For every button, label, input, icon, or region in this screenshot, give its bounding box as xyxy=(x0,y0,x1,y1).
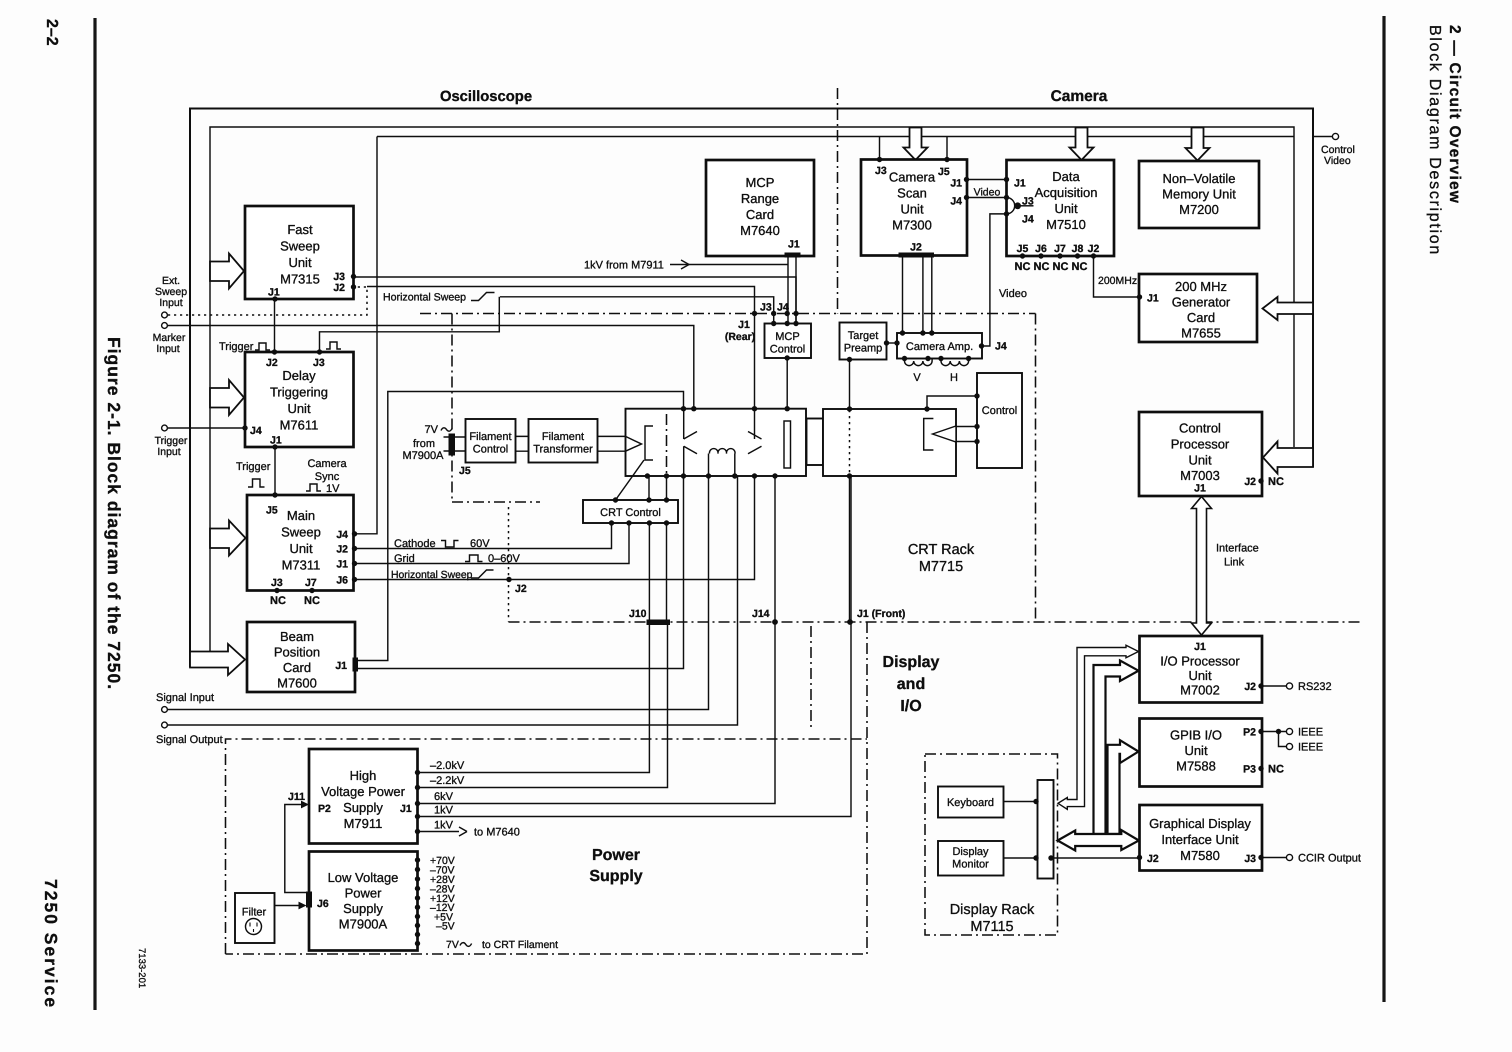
arrow into control processor unit xyxy=(1263,442,1313,474)
svg-text:Card: Card xyxy=(283,660,311,675)
label HV outputs xyxy=(430,760,465,832)
svg-text:Horizontal Sweep: Horizontal Sweep xyxy=(391,570,473,581)
svg-text:IEEE: IEEE xyxy=(1298,727,1323,739)
junction dots fast sweep xyxy=(272,274,356,302)
wire J11 to HV P2 xyxy=(285,801,309,893)
label J10 xyxy=(629,608,647,620)
svg-text:1kV from M7911: 1kV from M7911 xyxy=(584,260,664,272)
svg-text:Link: Link xyxy=(1224,557,1245,569)
svg-text:P2: P2 xyxy=(1243,727,1256,739)
arrow into 200MHz generator card xyxy=(1263,297,1314,320)
svg-text:to CRT Filament: to CRT Filament xyxy=(482,939,558,951)
svg-text:Power: Power xyxy=(592,847,640,864)
CRT mcp plate xyxy=(784,421,791,468)
page rule right xyxy=(1382,16,1385,1002)
wire MCP control to CRT mcp plate xyxy=(786,358,788,421)
outer frame top bus xyxy=(190,109,1313,668)
unit M7003 control processor xyxy=(1139,412,1262,496)
svg-text:Unit: Unit xyxy=(1188,668,1212,683)
keyboard box xyxy=(938,787,1004,818)
arrow into camera scan unit xyxy=(904,128,928,161)
footer 7250 Service rotated xyxy=(41,879,61,1009)
figure caption rotated xyxy=(104,337,124,690)
svg-text:0–60V: 0–60V xyxy=(488,553,520,565)
svg-text:Unit: Unit xyxy=(1054,201,1078,216)
svg-text:J1: J1 xyxy=(335,660,347,672)
CRT envelope xyxy=(626,409,807,476)
label J14 xyxy=(752,608,770,620)
label video camera scan xyxy=(974,187,1001,199)
svg-text:to M7640: to M7640 xyxy=(474,827,520,839)
connector bar camera scan J2 xyxy=(899,253,935,258)
junction dots CRT bottom xyxy=(645,473,778,478)
camera tube envelope xyxy=(823,409,956,476)
arrow into non-volatile memory unit xyxy=(1186,128,1210,161)
svg-text:7250 Service: 7250 Service xyxy=(41,879,61,1009)
svg-text:Position: Position xyxy=(274,645,320,660)
terminal CCIR Output xyxy=(1286,853,1361,865)
svg-text:Sync: Sync xyxy=(315,471,340,483)
label J4 camera amp xyxy=(995,341,1007,353)
svg-text:Input: Input xyxy=(159,297,182,309)
connector bar J5 7V xyxy=(449,434,456,456)
svg-text:Horizontal Sweep: Horizontal Sweep xyxy=(383,292,466,304)
label J2 rack xyxy=(515,583,527,595)
terminal trigger input xyxy=(155,425,188,458)
svg-text:Control: Control xyxy=(473,444,508,456)
svg-text:(Rear): (Rear) xyxy=(725,331,755,343)
svg-text:NC: NC xyxy=(1268,764,1284,776)
label trigger at fast J1 xyxy=(219,341,270,353)
svg-text:M7715: M7715 xyxy=(919,559,963,575)
svg-text:M7510: M7510 xyxy=(1046,217,1086,232)
svg-text:J10: J10 xyxy=(629,608,647,620)
wire beam position J1 lower route to CRT bottom xyxy=(357,476,684,669)
svg-text:M7900A: M7900A xyxy=(403,450,445,462)
svg-text:Generator: Generator xyxy=(1172,295,1231,310)
svg-text:Unit: Unit xyxy=(288,255,312,270)
svg-text:Filament: Filament xyxy=(469,431,511,443)
wire horizontal sweep from delay J3 to MCP control J3 xyxy=(320,297,774,352)
header Block Diagram Description rotated xyxy=(1426,25,1443,256)
svg-text:Cathode: Cathode xyxy=(394,538,436,550)
svg-text:Grid: Grid xyxy=(394,553,415,565)
svg-text:J3: J3 xyxy=(760,302,772,314)
wire target preamp to J1 front xyxy=(849,360,851,623)
label trigger at delay J1 xyxy=(236,461,271,487)
bus keyboard to IOP thin arrow xyxy=(1058,645,1139,809)
svg-text:Trigger: Trigger xyxy=(219,341,254,353)
svg-text:Fast: Fast xyxy=(287,222,313,237)
svg-text:Camera Amp.: Camera Amp. xyxy=(906,341,973,353)
camera tube target mesh dotted xyxy=(849,410,851,475)
label NC control processor J2 xyxy=(1268,476,1284,488)
svg-text:Video: Video xyxy=(974,187,1001,199)
svg-text:Voltage Power: Voltage Power xyxy=(321,784,406,799)
svg-text:J6: J6 xyxy=(1035,243,1047,255)
svg-text:Block Diagram Description: Block Diagram Description xyxy=(1426,25,1443,256)
svg-text:Beam: Beam xyxy=(280,629,314,644)
terminal signal output xyxy=(156,722,223,746)
svg-text:J11: J11 xyxy=(288,791,305,803)
svg-text:J2: J2 xyxy=(910,242,922,254)
wire CRT control outputs to J10 xyxy=(649,523,666,620)
svg-text:J1: J1 xyxy=(1014,178,1026,190)
CRT deflection plates vertical xyxy=(684,409,697,476)
label CRT rack xyxy=(908,542,975,575)
svg-text:1kV: 1kV xyxy=(434,820,454,832)
svg-text:M7588: M7588 xyxy=(1176,759,1216,774)
terminal RS232 xyxy=(1286,681,1331,693)
junction dots rack line J1 rear J3 J4 xyxy=(752,311,799,316)
wire 7V stubs at J5 xyxy=(444,437,466,451)
svg-text:J6: J6 xyxy=(336,575,348,587)
svg-text:J1: J1 xyxy=(336,559,348,571)
label interface link xyxy=(1216,543,1259,569)
junction dot CPU J2 xyxy=(1258,478,1263,483)
junction dots CRT top xyxy=(681,406,790,411)
MCP control box xyxy=(765,324,812,359)
svg-text:NC: NC xyxy=(1015,261,1031,273)
svg-text:Sweep: Sweep xyxy=(280,239,320,254)
title Camera xyxy=(1051,88,1108,105)
svg-text:Unit: Unit xyxy=(287,401,311,416)
unit M7580 graphical display interface xyxy=(1140,805,1263,871)
wire control box to tube top xyxy=(927,396,977,409)
svg-text:–2.2kV: –2.2kV xyxy=(430,775,465,787)
label NC GPIB P3 xyxy=(1268,764,1284,776)
terminal Control Video xyxy=(1321,133,1355,167)
svg-text:NC: NC xyxy=(1053,261,1069,273)
junction dots camera scan top xyxy=(877,157,950,162)
wire ext sweep to CRT J1 rear xyxy=(367,287,755,409)
bus channel into IOP bold arrow xyxy=(1094,661,1139,835)
label cathode xyxy=(394,538,490,550)
svg-text:J2: J2 xyxy=(515,583,527,595)
label display and IO xyxy=(883,654,940,715)
svg-text:Graphical Display: Graphical Display xyxy=(1149,816,1251,831)
wire video down to camera amp J4 xyxy=(982,214,1007,346)
svg-text:J4: J4 xyxy=(250,425,262,437)
wire 1kV from M7911 to MCP range J1 xyxy=(584,260,788,272)
label video line xyxy=(999,288,1027,300)
svg-text:I/O Processor: I/O Processor xyxy=(1160,654,1240,669)
CRT yoke coil xyxy=(709,449,736,476)
junction dots HV outputs xyxy=(415,770,420,834)
svg-text:MCP: MCP xyxy=(775,331,799,343)
unit M7655 200MHz generator card xyxy=(1139,274,1257,342)
wire J10 to HV -2.2kV xyxy=(418,624,668,788)
junction dot J2 rack crossing xyxy=(506,577,511,582)
unit M7315 fast sweep xyxy=(245,206,354,299)
wire transformer to CRT gun xyxy=(598,436,626,451)
wire camera scan J2 to camera amp xyxy=(903,257,932,333)
svg-text:J4: J4 xyxy=(995,341,1007,353)
control box xyxy=(977,373,1022,468)
label 7V from M7900A xyxy=(403,424,452,462)
svg-text:7V: 7V xyxy=(425,424,439,436)
display rack connector bar xyxy=(1038,780,1054,879)
svg-text:M7600: M7600 xyxy=(277,676,317,691)
svg-text:J2: J2 xyxy=(266,357,278,369)
svg-text:J3: J3 xyxy=(313,357,325,369)
svg-text:M7911: M7911 xyxy=(344,816,383,831)
svg-text:P2: P2 xyxy=(318,803,331,815)
wire keyboard to connector bar xyxy=(1004,801,1038,803)
svg-text:J7: J7 xyxy=(305,577,317,589)
pulse symbol at delay J3 xyxy=(326,342,341,349)
svg-text:M7611: M7611 xyxy=(280,418,319,433)
svg-text:J1: J1 xyxy=(738,319,750,331)
svg-text:Display Rack: Display Rack xyxy=(950,902,1035,918)
terminal IEEE 2 xyxy=(1286,742,1323,754)
wire filament control to transformer xyxy=(516,436,529,451)
svg-text:J5: J5 xyxy=(459,465,471,477)
svg-text:from: from xyxy=(413,438,435,450)
svg-text:P3: P3 xyxy=(1243,764,1256,776)
svg-text:Signal Output: Signal Output xyxy=(156,734,223,746)
label J1 rear xyxy=(725,319,755,343)
svg-text:Delay: Delay xyxy=(282,368,316,383)
svg-text:M7580: M7580 xyxy=(1180,848,1220,863)
svg-text:and: and xyxy=(897,676,925,693)
svg-text:Unit: Unit xyxy=(900,202,924,217)
junction dots delay triggering xyxy=(242,349,322,449)
svg-text:Signal Input: Signal Input xyxy=(156,692,214,704)
svg-text:Card: Card xyxy=(746,207,774,222)
wire DAU J2 to 200MHz J1 xyxy=(1094,256,1140,297)
label J5 rack xyxy=(459,465,471,477)
filament control box xyxy=(466,419,516,463)
svg-text:1kV: 1kV xyxy=(434,805,454,817)
svg-text:I/O: I/O xyxy=(900,698,921,715)
svg-text:Processor: Processor xyxy=(1171,437,1230,452)
filter box xyxy=(235,893,275,943)
dash-dot main rack line J1 front xyxy=(509,621,1361,623)
terminal signal input xyxy=(156,692,214,712)
unit M7640 MCP range card xyxy=(706,160,814,256)
svg-text:Interface Unit: Interface Unit xyxy=(1161,832,1239,847)
svg-text:J4: J4 xyxy=(336,529,348,541)
dash-dot boundary camera oscilloscope xyxy=(837,88,839,314)
svg-text:High: High xyxy=(350,768,377,783)
wire J10 to HV -2.0kV xyxy=(418,624,650,773)
junction dots CRT control xyxy=(609,497,669,525)
svg-text:J4: J4 xyxy=(1022,214,1034,226)
dash-dot display boundary stub xyxy=(810,626,812,731)
svg-text:NC: NC xyxy=(1072,261,1088,273)
svg-text:J2: J2 xyxy=(1244,681,1256,693)
connector bar J10 xyxy=(647,620,671,626)
svg-text:7133-201: 7133-201 xyxy=(136,948,147,988)
svg-text:H: H xyxy=(950,372,958,384)
junction dots MCP control xyxy=(771,321,799,361)
svg-text:J2: J2 xyxy=(336,544,348,556)
svg-text:V: V xyxy=(913,372,921,384)
svg-text:Display: Display xyxy=(952,846,989,858)
page number 2-2 rotated xyxy=(43,19,60,46)
svg-text:NC: NC xyxy=(1034,261,1050,273)
svg-text:200 MHz: 200 MHz xyxy=(1175,279,1227,294)
bus interface link double arrow xyxy=(1192,497,1212,636)
svg-text:Unit: Unit xyxy=(1184,743,1208,758)
svg-text:–2.0kV: –2.0kV xyxy=(430,760,465,772)
part number 7133-201 rotated xyxy=(136,948,147,988)
svg-text:Trigger: Trigger xyxy=(236,461,271,473)
svg-text:Triggering: Triggering xyxy=(270,385,328,400)
svg-text:Unit: Unit xyxy=(1188,453,1212,468)
svg-text:Monitor: Monitor xyxy=(952,859,989,871)
svg-text:J1: J1 xyxy=(1194,641,1206,653)
arrow into beam position card xyxy=(190,644,245,675)
dash-dot display rack box xyxy=(925,754,1058,935)
wire display monitor to GDIU J2 xyxy=(1004,857,1140,859)
svg-text:IEEE: IEEE xyxy=(1298,742,1323,754)
svg-text:NC: NC xyxy=(270,595,286,607)
CRT control box xyxy=(583,500,678,523)
svg-text:Range: Range xyxy=(741,191,779,206)
label horizontal sweep main xyxy=(391,570,494,581)
svg-text:7V: 7V xyxy=(446,939,459,951)
svg-text:J1: J1 xyxy=(1194,483,1206,495)
svg-text:J14: J14 xyxy=(752,608,770,620)
svg-text:J1 (Front): J1 (Front) xyxy=(857,608,905,620)
svg-text:Power: Power xyxy=(345,886,383,901)
wire beam position J1 upper route to CRT top xyxy=(357,392,684,661)
svg-text:Non–Volatile: Non–Volatile xyxy=(1163,171,1236,186)
wire IOP J2 to RS232 xyxy=(1261,685,1286,687)
label J11 xyxy=(288,791,305,803)
node DAU J3 J4 combiner xyxy=(1007,198,1034,214)
terminal IEEE 1 xyxy=(1286,727,1323,739)
junction dots video links xyxy=(964,177,1009,217)
terminal marker input xyxy=(153,323,186,355)
wire MCP range J1 down to J4 MCP control xyxy=(788,257,796,324)
svg-text:Main: Main xyxy=(287,508,315,523)
svg-text:J5: J5 xyxy=(266,505,278,517)
arrow into fast sweep unit xyxy=(210,254,244,289)
svg-text:Card: Card xyxy=(1187,310,1215,325)
label grid xyxy=(394,553,520,565)
junction dot 200MHz J1 xyxy=(1137,294,1142,299)
wire camera scan J3 riser xyxy=(879,137,881,160)
wire GPIB P2 to IEEE xyxy=(1261,732,1286,747)
junction dots J14 J1 front xyxy=(772,619,853,625)
CRT grid dash line xyxy=(666,414,668,474)
label LV outputs xyxy=(430,855,558,951)
wire target preamp to camera amp xyxy=(887,342,898,344)
unit M7588 GPIB IO xyxy=(1140,719,1263,787)
svg-text:MCP: MCP xyxy=(746,175,775,190)
svg-text:M7115: M7115 xyxy=(970,919,1013,935)
wire filter to LV J6 xyxy=(275,902,307,910)
svg-text:Figure 2-1. Block diagram of t: Figure 2-1. Block diagram of the 7250. xyxy=(104,337,124,690)
svg-text:M7300: M7300 xyxy=(892,218,932,233)
wire ext sweep dotted xyxy=(168,287,367,315)
wire grid main J1 to CRT control xyxy=(356,523,630,564)
svg-text:J1: J1 xyxy=(400,803,412,815)
svg-text:J1: J1 xyxy=(950,178,962,190)
svg-text:J5: J5 xyxy=(1017,243,1029,255)
svg-text:Target: Target xyxy=(848,330,879,342)
svg-text:2 — Circuit Overview: 2 — Circuit Overview xyxy=(1446,25,1463,204)
svg-text:GPIB I/O: GPIB I/O xyxy=(1170,728,1222,743)
junction dots DAU bottom xyxy=(1020,253,1096,258)
junction dots LV outputs xyxy=(415,857,420,946)
junction dots camera tube xyxy=(847,393,980,478)
svg-text:J1: J1 xyxy=(788,239,800,251)
svg-text:Memory Unit: Memory Unit xyxy=(1162,187,1236,202)
connector bar beam position J1 xyxy=(353,658,359,672)
svg-text:Video: Video xyxy=(1324,155,1351,167)
camera amp box xyxy=(897,333,982,359)
dash-dot CRT rack right xyxy=(1035,314,1037,622)
header 2-Circuit Overview rotated xyxy=(1446,25,1463,204)
wire signal input to CRT yoke xyxy=(168,476,709,710)
label display rack xyxy=(950,902,1035,935)
unit M7510 data acquisition xyxy=(1007,160,1115,256)
svg-text:M7002: M7002 xyxy=(1180,683,1220,698)
svg-text:M7003: M7003 xyxy=(1180,468,1220,483)
label horizontal sweep top xyxy=(383,292,495,304)
svg-text:J4: J4 xyxy=(950,196,962,208)
wire 6kV to J14 riser xyxy=(418,476,776,804)
svg-text:J3: J3 xyxy=(271,577,283,589)
wire camera scan J5 riser xyxy=(946,137,948,160)
junction dots camera amp xyxy=(900,330,984,361)
svg-text:Display: Display xyxy=(883,654,940,671)
svg-text:Input: Input xyxy=(156,343,179,355)
svg-text:J6: J6 xyxy=(317,898,329,910)
arrow into main sweep unit xyxy=(210,521,246,556)
svg-text:200MHz: 200MHz xyxy=(1098,275,1137,287)
svg-text:J2: J2 xyxy=(1147,853,1159,865)
svg-text:Supply: Supply xyxy=(343,800,383,815)
unit M7200 non-volatile memory xyxy=(1139,161,1259,228)
svg-text:M7900A: M7900A xyxy=(339,917,388,932)
svg-text:Video: Video xyxy=(999,288,1027,300)
wire cathode main J2 to CRT control xyxy=(356,523,612,549)
svg-text:M7640: M7640 xyxy=(740,223,780,238)
wire 1kV to J1 front riser xyxy=(418,476,852,817)
svg-text:Data: Data xyxy=(1052,169,1080,184)
svg-text:6kV: 6kV xyxy=(434,791,454,803)
svg-text:J3: J3 xyxy=(875,165,887,177)
svg-text:CRT Rack: CRT Rack xyxy=(908,542,975,558)
svg-text:–5V: –5V xyxy=(436,921,455,933)
camera amp V coil xyxy=(905,359,933,385)
svg-text:2–2: 2–2 xyxy=(43,19,60,46)
svg-text:Scan: Scan xyxy=(897,186,927,201)
label J3 J4 mcp xyxy=(760,302,789,314)
wire marker input to CRT xyxy=(168,326,694,409)
svg-text:Camera: Camera xyxy=(307,458,347,470)
unit M7311 main sweep xyxy=(247,495,354,591)
wire camera scan J1 to DAU J1 xyxy=(967,179,1007,181)
junction dots main sweep xyxy=(272,492,357,593)
target preamp box xyxy=(840,323,887,360)
svg-text:Keyboard: Keyboard xyxy=(947,797,994,809)
svg-text:M7200: M7200 xyxy=(1179,202,1219,217)
unit M7911 high voltage power supply xyxy=(309,749,418,844)
wire 1kV to M7640 stub xyxy=(418,827,520,839)
wire camera sync delay J1 to main J5 xyxy=(274,447,276,495)
svg-text:Acquisition: Acquisition xyxy=(1035,185,1098,200)
svg-text:Interface: Interface xyxy=(1216,543,1259,555)
dash-dot CRT rack top xyxy=(420,313,1036,315)
svg-text:J5: J5 xyxy=(938,166,950,178)
unit M7600 beam position card xyxy=(247,622,355,692)
